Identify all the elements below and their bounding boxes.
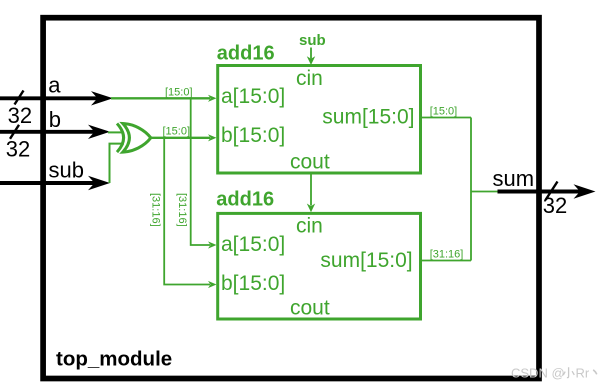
svg-text:cout: cout <box>290 297 330 320</box>
svg-text:add16: add16 <box>217 43 275 65</box>
adder U2 add16 box <box>218 213 421 319</box>
bus slash b <box>10 125 19 139</box>
svg-text:32: 32 <box>8 103 32 128</box>
output wire sum (black) <box>498 190 581 194</box>
wire cout U1 to cin U2 <box>310 173 312 206</box>
svg-text:cout: cout <box>290 151 330 174</box>
svg-text:sum[15:0]: sum[15:0] <box>322 105 414 128</box>
svg-text:add16: add16 <box>216 189 274 211</box>
arrowhead b <box>88 125 110 139</box>
wire sum join vertical <box>470 118 472 261</box>
svg-text:[15:0]: [15:0] <box>163 126 191 138</box>
svg-text:Rr: Rr <box>576 365 590 380</box>
arrowhead a upper to U2 <box>208 241 217 248</box>
svg-text:sum[15:0]: sum[15:0] <box>320 249 412 272</box>
module border top_module <box>43 18 539 379</box>
svg-text:CSDN @: CSDN @ <box>511 365 565 380</box>
svg-text:32: 32 <box>543 193 567 218</box>
wire sub label to cin U1 <box>310 48 312 59</box>
svg-text:top_module: top_module <box>56 348 172 371</box>
svg-text:32: 32 <box>6 137 30 162</box>
arrowhead sub to cin U1 <box>307 56 315 65</box>
svg-text:cin: cin <box>296 67 323 90</box>
wire b into xor gate <box>108 131 124 133</box>
arrowhead a to U1 <box>208 95 217 102</box>
input wire b (black) <box>0 130 95 134</box>
wire xor output to adder U1 b <box>150 137 210 139</box>
svg-text:[31:16]: [31:16] <box>176 193 188 227</box>
watermark CSDN @xiao Rr <box>511 365 597 380</box>
wire b upper bits to adder U2 <box>164 138 210 285</box>
input wire sub (black) <box>0 181 95 185</box>
arrowhead a <box>91 91 113 105</box>
arrowhead cout U1 to cin U2 <box>307 204 315 213</box>
svg-text:sub: sub <box>299 32 326 49</box>
bus slash a <box>15 91 24 105</box>
bus slash sum <box>546 182 558 201</box>
svg-text:a[15:0]: a[15:0] <box>221 85 285 108</box>
wire sum output (green) <box>471 191 499 193</box>
svg-text:sub: sub <box>49 158 84 183</box>
xor gate U3 (b ^ sub) <box>117 124 124 153</box>
svg-text:[31:16]: [31:16] <box>430 249 464 261</box>
arrowhead sub <box>88 176 110 190</box>
arrowhead b upper to U2 <box>208 281 217 288</box>
adder U1 add16 box <box>218 66 421 174</box>
arrowhead xor to U1 <box>208 134 217 141</box>
svg-text:[15:0]: [15:0] <box>165 86 193 98</box>
svg-text:b[15:0]: b[15:0] <box>221 124 285 147</box>
svg-text:[31:16]: [31:16] <box>150 193 162 227</box>
wire sub to xor gate <box>110 144 125 183</box>
wire sum lower bits from U1 <box>421 117 471 119</box>
svg-text:[15:0]: [15:0] <box>430 106 458 118</box>
wire a upper bits to adder U2 <box>191 98 210 245</box>
input wire a (black) <box>0 96 98 100</box>
svg-text:b: b <box>49 107 61 132</box>
svg-text:cin: cin <box>296 215 323 238</box>
svg-text:sum: sum <box>493 166 535 191</box>
svg-text:a[15:0]: a[15:0] <box>221 233 285 256</box>
wire a to adder U1 (green) <box>111 97 210 99</box>
svg-text:a: a <box>48 73 61 98</box>
arrowhead sum output <box>574 184 596 198</box>
svg-text:b[15:0]: b[15:0] <box>221 272 285 295</box>
wire sum upper bits from U2 <box>421 260 471 262</box>
